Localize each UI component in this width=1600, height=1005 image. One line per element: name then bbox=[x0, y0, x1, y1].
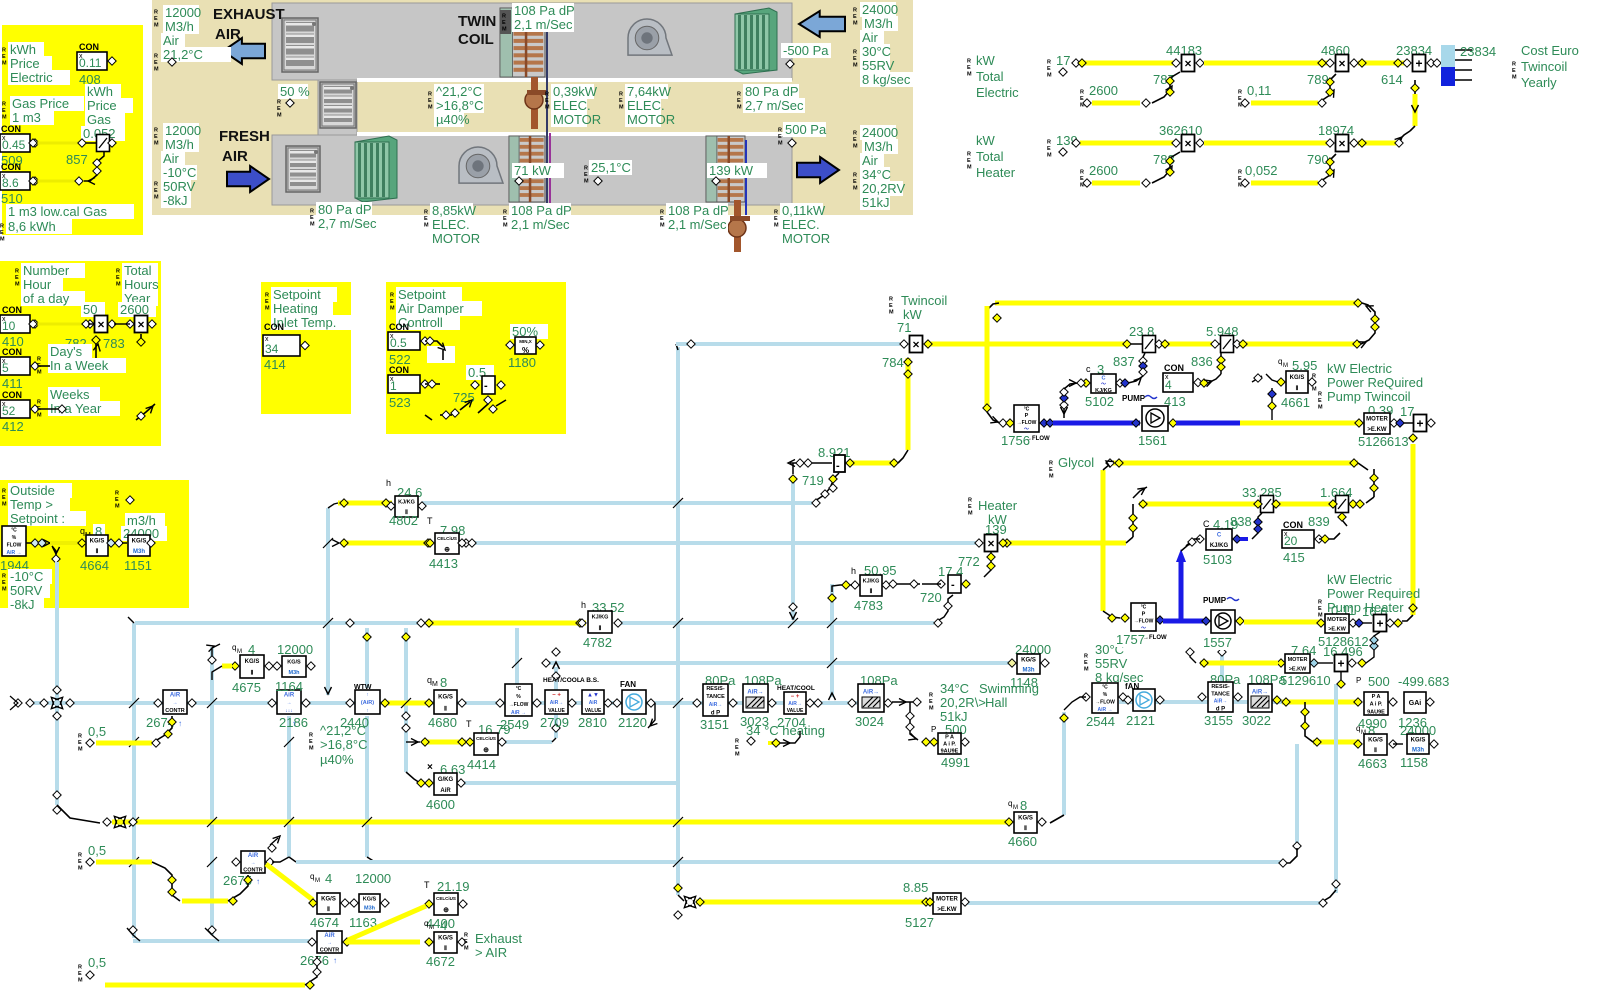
svg-text:kW: kW bbox=[976, 133, 996, 148]
svg-text:M: M bbox=[853, 144, 858, 150]
wire lb vertical x1297 bbox=[1295, 744, 1299, 843]
svg-text:M: M bbox=[545, 105, 550, 111]
svg-text:E: E bbox=[15, 275, 19, 281]
svg-text:M3/h: M3/h bbox=[864, 139, 893, 154]
AHU fresh duct bbox=[272, 135, 792, 205]
twin coil exhaust bbox=[500, 8, 545, 77]
svg-text:M: M bbox=[115, 504, 120, 510]
fresh fan bbox=[459, 147, 503, 183]
svg-text:PUMP: PUMP bbox=[1203, 596, 1227, 605]
svg-text:E: E bbox=[78, 971, 82, 977]
svg-text:E: E bbox=[2, 108, 6, 114]
svg-text:2544: 2544 bbox=[1086, 714, 1115, 729]
svg-text:R: R bbox=[619, 92, 623, 98]
svg-text:M: M bbox=[968, 511, 973, 517]
blue vertical glycol bbox=[1179, 556, 1184, 620]
twin coil fresh bbox=[509, 136, 545, 202]
wire lb vertical x1064 bbox=[1062, 712, 1066, 815]
heater coil bbox=[706, 136, 745, 202]
svg-text:Hour: Hour bbox=[23, 277, 52, 292]
svg-text:E: E bbox=[1049, 467, 1053, 473]
svg-text:KJ/KG: KJ/KG bbox=[1095, 388, 1112, 394]
junction 3024 out bbox=[892, 701, 918, 703]
block flow 2544 bbox=[1092, 683, 1118, 713]
AHU exhaust duct bbox=[272, 3, 792, 80]
svg-text:24000: 24000 bbox=[862, 125, 898, 140]
svg-text:Hall: Hall bbox=[985, 695, 1008, 710]
svg-text:C: C bbox=[1102, 375, 1106, 381]
heater mult bbox=[985, 535, 998, 552]
svg-text:↑: ↑ bbox=[366, 692, 369, 698]
svg-text:8: 8 bbox=[440, 675, 447, 690]
svg-text:Air: Air bbox=[862, 30, 879, 45]
svg-text:×: × bbox=[987, 537, 994, 551]
wire yellow y504 selectors bbox=[1139, 502, 1258, 507]
svg-text:R: R bbox=[154, 182, 158, 188]
wire lb vertical x57 bbox=[55, 562, 59, 805]
svg-text:411: 411 bbox=[2, 376, 23, 391]
svg-text:E: E bbox=[660, 216, 664, 222]
svg-text:Ⅱ: Ⅱ bbox=[599, 625, 602, 632]
svg-text:>16,8°C: >16,8°C bbox=[320, 737, 367, 752]
svg-text:M3h: M3h bbox=[364, 906, 376, 912]
svg-text:R: R bbox=[154, 54, 158, 60]
label 500Pa bbox=[783, 122, 826, 137]
svg-text:Ⅱ: Ⅱ bbox=[96, 548, 99, 555]
svg-text:M: M bbox=[0, 237, 5, 243]
svg-text:R: R bbox=[1080, 90, 1084, 96]
svg-text:EXHAUST: EXHAUST bbox=[213, 6, 285, 23]
wire lb y503 bbox=[422, 501, 812, 505]
svg-text:KG/S: KG/S bbox=[1411, 737, 1426, 743]
P2 mult2 bbox=[135, 316, 148, 333]
svg-text:21.19: 21.19 bbox=[437, 879, 470, 894]
svg-text:Setpoint :: Setpoint : bbox=[10, 511, 65, 526]
svg-text:839: 839 bbox=[1308, 514, 1330, 529]
svg-text:×: × bbox=[1338, 137, 1345, 151]
svg-text:↑: ↑ bbox=[333, 956, 337, 965]
wire yellow y463 bbox=[1112, 461, 1358, 466]
svg-text:M: M bbox=[310, 222, 315, 228]
fresh damper bbox=[286, 146, 320, 192]
svg-text:-10°C: -10°C bbox=[163, 165, 196, 180]
svg-text:M: M bbox=[967, 72, 972, 78]
svg-text:R: R bbox=[428, 92, 432, 98]
yellow 2676 to 4672 bbox=[348, 940, 420, 945]
svg-text:E: E bbox=[778, 134, 782, 140]
svg-text:Ⅱ: Ⅱ bbox=[1024, 825, 1027, 832]
svg-text:>16,8°C: >16,8°C bbox=[436, 98, 483, 113]
wire lb vertical x367 lower bbox=[365, 716, 369, 857]
panel setpoint air damper bbox=[386, 282, 566, 434]
svg-text:M: M bbox=[853, 186, 858, 192]
label -500Pa bbox=[781, 43, 831, 58]
svg-text:R: R bbox=[1080, 170, 1084, 176]
svg-text:q: q bbox=[424, 919, 428, 928]
svg-text:− +: − + bbox=[791, 694, 800, 700]
svg-text:Hours: Hours bbox=[124, 277, 159, 292]
svg-text:34°C: 34°C bbox=[862, 167, 891, 182]
svg-text:kW Electric: kW Electric bbox=[1327, 572, 1393, 587]
svg-text:M: M bbox=[265, 306, 270, 312]
svg-text:E: E bbox=[116, 275, 120, 281]
svg-text:M: M bbox=[309, 746, 314, 752]
svg-text:HEAT/COOL: HEAT/COOL bbox=[777, 685, 815, 692]
riser x1374 bbox=[1373, 469, 1375, 497]
svg-text:M: M bbox=[619, 105, 624, 111]
riser x1133 bbox=[1132, 504, 1134, 537]
svg-text:R: R bbox=[735, 739, 739, 745]
svg-text:790: 790 bbox=[1307, 152, 1329, 167]
svg-text:%: % bbox=[1103, 692, 1108, 698]
svg-text:M: M bbox=[390, 306, 395, 312]
wire lb 4414 out bbox=[505, 740, 552, 744]
svg-text:KG/S: KG/S bbox=[438, 936, 453, 942]
svg-text:E: E bbox=[310, 215, 314, 221]
starburst x57 y810 bbox=[53, 791, 61, 799]
svg-text:E: E bbox=[1080, 96, 1084, 102]
svg-text:4680: 4680 bbox=[428, 715, 457, 730]
svg-text:M: M bbox=[1312, 387, 1317, 393]
coil pipes upper bbox=[531, 77, 538, 129]
svg-text:MOTER: MOTER bbox=[1327, 617, 1347, 623]
svg-text:E: E bbox=[0, 230, 4, 236]
svg-text:789: 789 bbox=[1307, 72, 1329, 87]
svg-text:+: + bbox=[1376, 617, 1383, 631]
svg-text:Air: Air bbox=[163, 33, 180, 48]
svg-text:>E.KW: >E.KW bbox=[1289, 666, 1307, 672]
svg-text:1557: 1557 bbox=[1203, 635, 1232, 650]
coil pipes heater bbox=[734, 200, 741, 252]
svg-text:kW: kW bbox=[976, 53, 996, 68]
svg-text:M: M bbox=[503, 223, 508, 229]
svg-text:Total: Total bbox=[976, 69, 1004, 84]
svg-text:E: E bbox=[929, 699, 933, 705]
svg-text:2,7 m/Sec: 2,7 m/Sec bbox=[745, 98, 804, 113]
svg-text:E: E bbox=[503, 216, 507, 222]
blue wire 1757-1557 bbox=[1163, 619, 1208, 624]
svg-text:°C: °C bbox=[11, 528, 17, 534]
svg-text:q: q bbox=[1356, 724, 1360, 733]
svg-text:34: 34 bbox=[265, 342, 279, 356]
svg-text:4663: 4663 bbox=[1358, 756, 1387, 771]
svg-text:AiR→: AiR→ bbox=[709, 702, 723, 708]
svg-text:d P: d P bbox=[711, 710, 720, 716]
svg-text:MOTOR: MOTOR bbox=[627, 112, 675, 127]
svg-text:E: E bbox=[1238, 96, 1242, 102]
P5 m3h block bbox=[128, 535, 150, 556]
svg-text:E: E bbox=[309, 739, 313, 745]
svg-text:E: E bbox=[735, 745, 739, 751]
svg-text:836: 836 bbox=[1191, 354, 1213, 369]
label 139kW bbox=[707, 163, 767, 178]
svg-text:Pump Twincoil: Pump Twincoil bbox=[1327, 389, 1411, 404]
wire lb vertical x367 upper bbox=[365, 628, 369, 688]
svg-text:T: T bbox=[466, 719, 472, 729]
svg-text:4414: 4414 bbox=[467, 757, 496, 772]
svg-text:h: h bbox=[851, 566, 856, 576]
svg-text:q: q bbox=[310, 872, 314, 881]
wire yellow y543 segment bbox=[341, 541, 432, 546]
svg-text:KG/S: KG/S bbox=[1021, 657, 1036, 663]
svg-text:783: 783 bbox=[103, 336, 125, 351]
svg-text:Yearly: Yearly bbox=[1521, 75, 1557, 90]
8.921 below bbox=[834, 473, 839, 478]
svg-text:R: R bbox=[1238, 90, 1242, 96]
svg-text:4661: 4661 bbox=[1281, 395, 1310, 410]
svg-text:-: - bbox=[484, 380, 488, 392]
svg-text:C: C bbox=[1217, 533, 1222, 539]
svg-text:×: × bbox=[137, 318, 144, 332]
svg-text:0,5: 0,5 bbox=[88, 843, 106, 858]
svg-text:+: + bbox=[1415, 57, 1422, 71]
svg-text:> AIR: > AIR bbox=[475, 945, 507, 960]
svg-text:M: M bbox=[1047, 73, 1052, 79]
svg-text:4: 4 bbox=[440, 918, 447, 933]
P1 gas heat value labels bbox=[6, 204, 134, 219]
svg-text:+: + bbox=[1416, 417, 1423, 431]
svg-text:M3/h: M3/h bbox=[864, 16, 893, 31]
svg-text:E: E bbox=[1238, 176, 1242, 182]
wire yellow vertical x908 twincoil feed bbox=[906, 358, 911, 450]
svg-text:71 kW: 71 kW bbox=[514, 163, 552, 178]
svg-text:Ⅱ: Ⅱ bbox=[870, 588, 873, 595]
svg-text:^21,2°C: ^21,2°C bbox=[436, 84, 482, 99]
svg-text:In a Week: In a Week bbox=[50, 358, 109, 373]
svg-text:3151: 3151 bbox=[700, 717, 729, 732]
svg-text:ELEC.: ELEC. bbox=[782, 217, 820, 232]
svg-text:PUMP: PUMP bbox=[1122, 394, 1146, 403]
yellow diagonal 2675 to 4674 bbox=[266, 864, 313, 900]
svg-text:1164: 1164 bbox=[275, 679, 303, 694]
blue wire 1756-1561 bbox=[1053, 421, 1140, 426]
svg-text:Setpoint: Setpoint bbox=[273, 287, 321, 302]
svg-text:Air: Air bbox=[862, 153, 879, 168]
svg-text:0,11kW: 0,11kW bbox=[782, 203, 826, 218]
svg-text:E: E bbox=[774, 216, 778, 222]
svg-text:FAN: FAN bbox=[620, 680, 636, 689]
svg-text:KG/S: KG/S bbox=[245, 659, 260, 665]
coil circuit vertical lines bbox=[546, 30, 548, 215]
svg-text:E: E bbox=[115, 497, 119, 503]
svg-text:E: E bbox=[1318, 398, 1322, 404]
svg-text:E: E bbox=[737, 98, 741, 104]
svg-text:500 Pa: 500 Pa bbox=[785, 122, 827, 137]
svg-text:E: E bbox=[428, 98, 432, 104]
svg-text:M: M bbox=[1084, 667, 1089, 673]
svg-text:Gas: Gas bbox=[87, 112, 111, 127]
svg-text:0.5: 0.5 bbox=[390, 336, 407, 350]
svg-text:1 m3 low.cal Gas: 1 m3 low.cal Gas bbox=[8, 204, 107, 219]
svg-text:51kJ: 51kJ bbox=[862, 195, 889, 210]
svg-text:R: R bbox=[2, 102, 6, 108]
svg-text:415: 415 bbox=[1283, 550, 1305, 565]
svg-text:CON: CON bbox=[389, 322, 409, 332]
svg-text:M: M bbox=[37, 370, 42, 376]
svg-text:R: R bbox=[967, 152, 971, 158]
svg-text:2709: 2709 bbox=[540, 715, 569, 730]
P5 wires bbox=[26, 542, 32, 544]
svg-text:Cost Euro: Cost Euro bbox=[1521, 43, 1579, 58]
svg-text:Outside: Outside bbox=[10, 483, 55, 498]
svg-text:M: M bbox=[277, 113, 282, 119]
svg-text:A B.S.: A B.S. bbox=[580, 677, 599, 684]
block contr 2674 bbox=[163, 690, 187, 714]
svg-text:R: R bbox=[424, 210, 428, 216]
svg-text:KG/S: KG/S bbox=[363, 897, 377, 903]
svg-text:Total: Total bbox=[976, 149, 1004, 164]
svg-text:M: M bbox=[2, 61, 7, 67]
svg-text:AiR→: AiR→ bbox=[550, 700, 564, 706]
svg-text:Temp >: Temp > bbox=[10, 497, 53, 512]
svg-text:R: R bbox=[968, 498, 972, 504]
svg-text:R: R bbox=[464, 933, 468, 939]
svg-text:R: R bbox=[929, 693, 933, 699]
svg-text:kWh: kWh bbox=[10, 42, 36, 57]
svg-text:4: 4 bbox=[325, 871, 332, 886]
svg-text:E: E bbox=[502, 20, 506, 26]
svg-text:M: M bbox=[424, 223, 429, 229]
svg-text:5103: 5103 bbox=[1203, 552, 1232, 567]
junction marks mid bbox=[673, 498, 683, 508]
wire lb y902 right bbox=[963, 901, 1320, 905]
svg-text:Ⅱ: Ⅱ bbox=[327, 906, 330, 913]
svg-text:CON: CON bbox=[79, 42, 99, 52]
svg-text:2810: 2810 bbox=[578, 715, 607, 730]
exhaust filter bbox=[735, 8, 777, 74]
svg-text:G/KG: G/KG bbox=[438, 777, 454, 783]
AHU right fresh labels bbox=[860, 125, 896, 140]
svg-text:R: R bbox=[889, 297, 893, 303]
svg-text:30°C: 30°C bbox=[862, 44, 891, 59]
P4 percent block bbox=[510, 324, 548, 339]
svg-text:0,5: 0,5 bbox=[88, 724, 106, 739]
svg-text:c: c bbox=[1086, 364, 1091, 374]
svg-text:MOTOR: MOTOR bbox=[553, 112, 601, 127]
svg-text:R: R bbox=[78, 965, 82, 971]
svg-text:0,052: 0,052 bbox=[1245, 163, 1278, 178]
plus twincoil down to heater chain bbox=[1409, 434, 1417, 442]
svg-text:→FLOW: →FLOW bbox=[509, 702, 529, 708]
svg-text:AIR: AIR bbox=[215, 26, 241, 43]
svg-text:-500 Pa: -500 Pa bbox=[783, 43, 829, 58]
svg-text:784: 784 bbox=[882, 355, 904, 370]
svg-text:C: C bbox=[1203, 519, 1210, 529]
svg-text:R: R bbox=[545, 92, 549, 98]
wire lb vertical x328 bbox=[326, 508, 330, 695]
y623 right end elbow bbox=[934, 595, 953, 623]
svg-text:R: R bbox=[37, 357, 41, 363]
AHU left exhaust labels bbox=[163, 5, 199, 20]
svg-text:108 Pa dP: 108 Pa dP bbox=[668, 203, 729, 218]
vertical to 4661 bbox=[1271, 388, 1273, 420]
svg-text:M: M bbox=[315, 878, 320, 884]
svg-text:M3h: M3h bbox=[1023, 667, 1035, 673]
svg-text:R: R bbox=[390, 293, 394, 299]
svg-text:E: E bbox=[967, 158, 971, 164]
svg-text:5127: 5127 bbox=[905, 915, 934, 930]
svg-text:〜: 〜 bbox=[1141, 625, 1146, 631]
heater row wire3 bbox=[1358, 141, 1396, 146]
svg-text:AIR: AIR bbox=[222, 148, 248, 165]
wire lb vertical x793 bbox=[791, 482, 795, 620]
svg-text:KG/S: KG/S bbox=[1018, 816, 1033, 822]
svg-text:CON: CON bbox=[2, 305, 22, 315]
svg-text:M: M bbox=[154, 141, 159, 147]
P1 con 0.11 bbox=[77, 52, 107, 70]
svg-text:d P: d P bbox=[1216, 707, 1225, 713]
svg-text:10: 10 bbox=[2, 319, 16, 333]
svg-text:8,6 kWh: 8,6 kWh bbox=[8, 219, 56, 234]
svg-text:KJ/KG: KJ/KG bbox=[592, 615, 609, 621]
electric row wire2 bbox=[1204, 61, 1332, 66]
svg-text:AiR →: AiR → bbox=[511, 710, 526, 716]
svg-text:P A: P A bbox=[1372, 694, 1381, 700]
svg-text:R: R bbox=[853, 50, 857, 56]
AHU right exhaust labels bbox=[860, 2, 896, 17]
svg-text:Heater: Heater bbox=[978, 498, 1018, 513]
svg-text:R: R bbox=[737, 92, 741, 98]
svg-text:E: E bbox=[154, 60, 158, 66]
svg-text:E: E bbox=[154, 188, 158, 194]
svg-text:Ⅱ: Ⅱ bbox=[1374, 747, 1377, 754]
svg-text:2440: 2440 bbox=[340, 715, 369, 730]
svg-text:CON: CON bbox=[1, 124, 21, 134]
svg-text:E: E bbox=[853, 56, 857, 62]
svg-text:E: E bbox=[1512, 68, 1516, 74]
svg-text:ELEC.: ELEC. bbox=[627, 98, 665, 113]
svg-text:4802: 4802 bbox=[389, 513, 418, 528]
svg-text:↑: ↑ bbox=[256, 877, 260, 886]
svg-text:12000: 12000 bbox=[165, 5, 201, 20]
svg-text:M: M bbox=[967, 165, 972, 171]
svg-text:E: E bbox=[1047, 146, 1051, 152]
arrow fresh out bbox=[797, 157, 839, 183]
svg-text:FRESH: FRESH bbox=[219, 128, 270, 145]
label 71kW bbox=[512, 163, 564, 178]
wire lb row2 right bbox=[1119, 700, 1282, 704]
svg-text:R: R bbox=[78, 734, 82, 740]
svg-text:Twincoil: Twincoil bbox=[901, 293, 947, 308]
svg-text:1561: 1561 bbox=[1138, 433, 1167, 448]
svg-text:12000: 12000 bbox=[355, 871, 391, 886]
svg-text:E: E bbox=[2, 580, 6, 586]
svg-text:RESiS-: RESiS- bbox=[1211, 684, 1230, 690]
svg-text:q: q bbox=[1278, 357, 1282, 366]
svg-text:M: M bbox=[428, 105, 433, 111]
svg-text:50 %: 50 % bbox=[280, 84, 310, 99]
svg-text:E: E bbox=[154, 134, 158, 140]
svg-text:R: R bbox=[1049, 461, 1053, 467]
svg-text:AiR→: AiR→ bbox=[1252, 689, 1268, 695]
wire lb twincoil row bbox=[676, 342, 900, 346]
svg-text:h: h bbox=[581, 600, 586, 610]
svg-text:E: E bbox=[1084, 660, 1088, 666]
svg-text:M: M bbox=[1318, 613, 1323, 619]
svg-text:TANCE: TANCE bbox=[706, 694, 725, 700]
svg-text:M: M bbox=[37, 413, 42, 419]
svg-text:KJ/KG: KJ/KG bbox=[398, 499, 415, 505]
svg-text:R: R bbox=[853, 173, 857, 179]
heater row wire2 bbox=[1204, 141, 1332, 146]
svg-text:E: E bbox=[78, 740, 82, 746]
svg-text:M3h: M3h bbox=[1412, 747, 1424, 753]
svg-text:M3h: M3h bbox=[289, 670, 301, 676]
svg-text:P: P bbox=[931, 725, 936, 734]
svg-text:Air Damper: Air Damper bbox=[398, 301, 464, 316]
wire lb vertical x406 bbox=[404, 628, 408, 772]
svg-text:AiR: AiR bbox=[589, 700, 598, 706]
